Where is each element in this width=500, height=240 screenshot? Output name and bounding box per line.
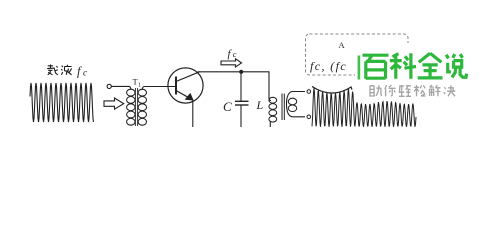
wire: emitter to bottom — [192, 101, 194, 128]
svg-text:C: C — [223, 99, 232, 114]
carrier sine wave — [30, 83, 94, 122]
input signal hollow arrow — [104, 98, 124, 109]
transistor emitter lead with arrow — [176, 91, 193, 100]
wire: T1 secondary to transistor base — [142, 87, 176, 90]
watermark green bar — [358, 56, 361, 80]
terminal: secondary top — [307, 90, 311, 94]
junction node above C — [239, 70, 243, 74]
output transformer core — [281, 94, 283, 121]
wire: rail down to inductor L — [269, 72, 271, 101]
label: carrier wave 载波 — [47, 65, 71, 75]
transformer T1 core — [134, 88, 136, 126]
svg-text:L: L — [256, 98, 264, 112]
watermark white backing — [355, 43, 471, 99]
transistor collector lead — [176, 72, 200, 82]
watermark tagline 助你轻松解决 — [369, 85, 455, 96]
terminal: secondary bottom — [307, 115, 311, 119]
modulated output wave — [312, 88, 416, 127]
wire: inductor L to bottom — [269, 122, 271, 128]
transformer T1 secondary coil — [138, 89, 146, 96]
wire: junction to capacitor — [240, 72, 242, 102]
svg-text:c: c — [233, 49, 237, 59]
capacitor C plates — [235, 100, 249, 102]
svg-text:1: 1 — [138, 83, 141, 89]
watermark text 百科全说 — [363, 53, 467, 78]
wire: collector rail — [198, 71, 270, 73]
wire: terminal to T1 primary — [111, 86, 131, 89]
transistor base bar — [175, 77, 177, 95]
wire: capacitor to bottom — [240, 105, 242, 127]
inductor L — [269, 97, 277, 103]
svg-text:A: A — [339, 40, 346, 50]
svg-text:fc, (fc: fc, (fc — [310, 59, 347, 73]
input terminal — [107, 84, 111, 88]
dashed spectrum box — [306, 34, 409, 75]
transistor body circle — [168, 68, 203, 103]
fc hollow arrow — [221, 59, 242, 67]
output transformer secondary coil — [287, 92, 306, 117]
transformer T1 primary coil — [127, 89, 135, 96]
modulation envelope line — [312, 86, 352, 93]
